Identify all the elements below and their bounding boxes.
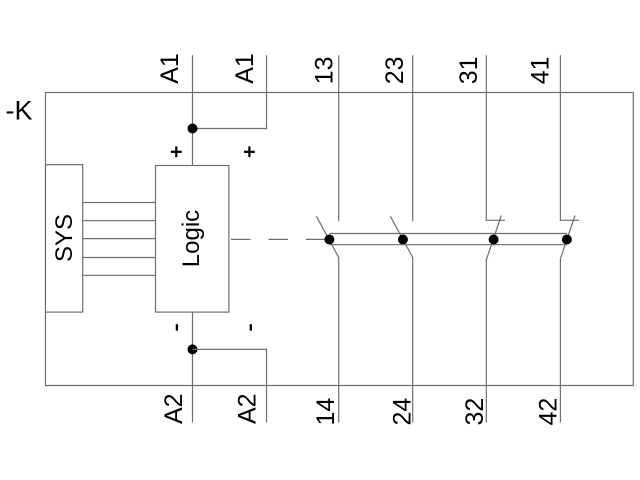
contact linkage bar top [329, 233, 567, 235]
terminal lead 42 [559, 259, 561, 423]
contact dot 13-14 [324, 235, 334, 245]
actuator dashed link Logic to contacts [231, 238, 325, 240]
terminal lead A1 #1 [192, 55, 194, 166]
svg-text:Logic: Logic [178, 210, 205, 267]
svg-text:13: 13 [311, 56, 339, 84]
bus wire 2 SYS-Logic [83, 220, 156, 222]
svg-text:14: 14 [312, 398, 340, 426]
terminal lead 14 [338, 258, 340, 423]
svg-text:A2: A2 [160, 393, 188, 424]
polarity + (terminal A1 #1) [171, 146, 182, 157]
polarity - (terminal A2 #1) [176, 324, 178, 330]
polarity - (terminal A2 #2) [250, 324, 252, 330]
terminal lead A2 #1 [192, 312, 194, 422]
terminal lead A2 #2 [266, 349, 268, 422]
SYS box [46, 165, 83, 312]
svg-text:31: 31 [455, 56, 483, 84]
svg-text:24: 24 [389, 398, 417, 426]
device outline -K [46, 93, 634, 386]
svg-text:41: 41 [527, 56, 555, 84]
contact linkage bar bottom [329, 244, 567, 246]
terminal lead 41 [559, 55, 561, 221]
bus wire 5 SYS-Logic [83, 274, 156, 276]
terminal lead 32 [485, 259, 487, 423]
polarity + (terminal A1 #2) [244, 146, 255, 157]
svg-text:A1: A1 [156, 53, 184, 84]
bus wire 1 SYS-Logic [83, 202, 156, 204]
junction dot A1 [188, 124, 198, 134]
svg-text:SYS: SYS [51, 214, 78, 262]
NO contact blade 13-14 [316, 216, 339, 258]
terminal lead 13 [338, 55, 340, 221]
svg-text:-K: -K [6, 96, 33, 126]
svg-text:A1: A1 [231, 53, 259, 84]
terminal lead 24 [412, 258, 414, 423]
contact dot 23-24 [398, 235, 408, 245]
NC contact blade 41-42 [560, 216, 575, 260]
terminal lead A1 #2 [266, 55, 268, 128]
bus wire 4 SYS-Logic [83, 257, 156, 259]
terminal lead 31 [485, 55, 487, 221]
junction dot A2 [188, 344, 198, 354]
wire A2 bridge [193, 348, 268, 350]
Logic box [156, 166, 229, 313]
NC contact bar 41 [560, 219, 579, 221]
wire A1 bridge [193, 128, 268, 130]
terminal lead 23 [412, 55, 414, 221]
svg-text:42: 42 [535, 398, 563, 426]
svg-text:32: 32 [461, 398, 489, 426]
NC contact blade 31-32 [487, 216, 502, 260]
contact dot 31-32 [489, 235, 499, 245]
NC contact bar 31 [486, 219, 505, 221]
bus wire 3 SYS-Logic [83, 238, 156, 240]
contact dot 41-42 [562, 235, 572, 245]
svg-text:A2: A2 [234, 393, 262, 424]
NO contact blade 23-24 [390, 216, 413, 258]
svg-text:23: 23 [381, 56, 409, 84]
